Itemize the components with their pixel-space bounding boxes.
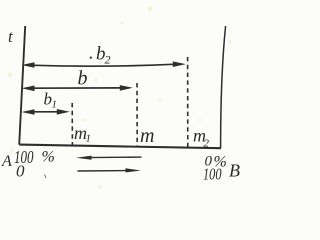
svg-text:100: 100	[203, 165, 222, 184]
dashed line m2	[187, 57, 189, 148]
dashed line m1	[71, 103, 73, 147]
t axis (left vertical axis)	[19, 26, 25, 145]
svg-text:A: A	[1, 153, 12, 170]
dashed line m	[136, 83, 138, 147]
baseline A-B	[19, 145, 221, 149]
label .b2	[90, 44, 111, 67]
svg-text:%: %	[42, 149, 55, 166]
arrow b2	[22, 61, 186, 67]
arrow b1	[22, 109, 70, 115]
svg-text:1: 1	[86, 133, 92, 145]
svg-text:2: 2	[105, 53, 111, 67]
svg-text:B: B	[229, 161, 240, 181]
svg-text:m: m	[140, 125, 154, 147]
arrow b	[22, 85, 133, 91]
exchange arrow left	[76, 156, 142, 160]
exchange arrow right	[78, 168, 142, 172]
stray speck	[45, 175, 47, 179]
svg-text:b: b	[78, 68, 88, 90]
paper background	[0, 0, 249, 193]
svg-text:1: 1	[52, 99, 58, 111]
right boundary curve	[221, 26, 226, 148]
svg-text:0: 0	[16, 162, 25, 181]
svg-text:2: 2	[204, 138, 210, 150]
